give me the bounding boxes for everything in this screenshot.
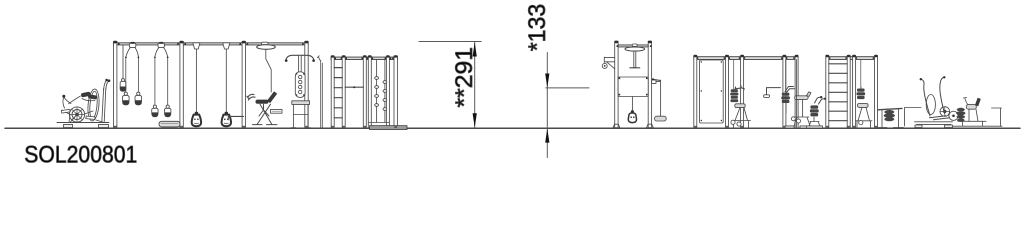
elliptical trainer handle top [104,81,109,90]
punch bag rope 2 [225,49,227,112]
dimension line 291 [474,42,476,128]
elliptical trainer crank wheel [69,107,84,122]
tower1 panel [618,77,648,97]
rider machine handlebars [247,94,255,100]
abs bench roller pads [884,110,895,121]
abs bench legs [877,109,904,128]
jungle gym climbing holds column 2 [384,60,386,122]
rider machine seat [256,100,269,104]
bag pair 2 bag D [164,105,170,117]
tower1 posts [615,42,618,129]
bag pair 1 bag B [135,92,142,105]
jungle gym climbing holds column 1 [376,60,378,122]
elliptical2 arm right [940,78,945,114]
rider machine footboard [271,109,283,113]
frameB beam [827,57,877,60]
machine2b base [807,126,823,128]
arrow 133 lower (up at ground) [545,128,549,142]
machine3 weight plates [857,89,866,100]
post ground feet [114,126,877,128]
frameB posts [826,56,878,128]
machine3 frame [856,87,873,128]
pommel bag 2 [222,112,231,127]
arrow 291 bottom [473,113,477,127]
frame beam bolts [335,45,875,59]
post P2 [180,42,183,128]
bag pair 1 bag A [122,92,129,105]
rider machine backrest [267,91,277,103]
overhead beam (left group) [113,43,308,45]
lat tower weight capsule [295,72,305,98]
dimension extension line 291 top [419,41,481,43]
recumbent pedal wheel [949,111,958,120]
machine1 weight plates [730,89,738,102]
svg-text:SOL200801: SOL200801 [24,142,137,169]
low bench platform [159,121,180,127]
tower1 foot plates [613,124,653,128]
lat tower T-top [286,55,314,60]
lat tower pedestal [292,101,310,105]
frameA posts [694,56,798,128]
frameA inner door frame [700,60,724,123]
jungle gym posts [331,56,397,128]
low rail to post P3 [228,116,243,119]
jungle gym base mat [370,126,408,130]
rider machine legs [253,104,278,124]
dimension line 133 [546,53,548,158]
machine2b frame [809,117,820,126]
recumbent frame [953,109,1002,126]
post P3 [242,42,245,128]
tower1 swing arm [652,80,656,83]
machine2 handles [785,87,795,94]
bag hanger bracket B1 [129,43,135,47]
machine2 weight plates [781,93,790,103]
handrail left of elliptical2 [905,108,922,127]
elliptical trainer seat pads [81,91,91,97]
lat tower column [299,55,302,73]
tower1 crossbar [618,45,648,47]
machine1 seat [735,104,745,108]
elliptical2 crank [940,107,950,117]
tower1 pull-up disc [632,44,637,46]
recumbent weight discs [956,108,965,122]
machine2 base pads [785,126,794,128]
machine1 pedals [731,120,735,124]
post P1 [114,42,117,128]
machine2 hanging arm [767,88,781,95]
recumbent backrest [975,98,981,107]
elliptical2 arm left [922,79,930,116]
machine3 cable [860,60,862,88]
machine3 pedals [859,121,863,125]
arrow 291 top [473,42,477,56]
bag hanger bracket B2 [158,43,164,47]
elliptical2 pedals [930,116,950,120]
bag pair 1 straps [126,47,138,56]
elliptical2 loop [926,95,935,115]
machine1 arm [735,86,745,91]
overhead pulley disc on beam [257,42,276,49]
abs bench top [878,108,902,109]
jungle gym beam [331,57,397,60]
elliptical pedals [61,109,70,113]
rope hanger Y2 on beam [223,43,230,49]
frameB ladder rungs [829,64,847,121]
tower1 hanging bag [631,97,633,112]
ground line [5,127,1020,129]
elliptical2 base [915,122,953,125]
machine2 seat [795,96,809,100]
recumbent seat [966,105,976,110]
machine1 legs [732,108,751,128]
svg-text:*133: *133 [524,4,551,52]
machine2 cable [785,60,787,92]
jungle gym pull-up bar [345,86,363,88]
machine1 cable [733,60,735,89]
punch bag rope 1 [195,49,197,112]
elliptical trainer (left) base [57,123,109,128]
jungle gym sign pole [321,61,323,129]
machine2b weight plates [810,105,819,116]
jungle gym ladder rungs [334,68,342,118]
bag pair 2 bag C [152,105,158,117]
tower1 dip bracket [604,57,614,69]
machine2 legs [786,59,810,127]
recumbent right support [992,108,1002,126]
elliptical trainer loop arm [87,89,101,122]
machine2 pedals [791,117,795,121]
elliptical trainer frame links [62,110,104,123]
arrow 133 upper (down at tick) [545,74,549,88]
elliptical trainer front knob and handlebar [62,95,65,98]
svg-text:**291: **291 [451,47,478,108]
machine2b handles [815,97,825,104]
machine3 seat [858,104,869,108]
rope hanger Y1 on beam [193,43,200,49]
pommel bag 1 [192,112,201,127]
beam connector bolts [118,43,304,45]
bag pair 2 straps [155,47,168,56]
elliptical trainer mast [102,89,106,123]
cable from disc to rider [266,49,271,92]
single small bag near post P1 [120,45,126,91]
post P4 [305,42,308,128]
dimension extension tick 133 [546,87,589,89]
frameA beam [694,57,798,60]
recumbent handle [963,98,967,105]
